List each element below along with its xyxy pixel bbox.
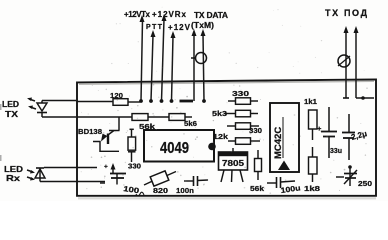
svg-text:5k6: 5k6 [184,119,197,128]
svg-text:TX ПОД: TX ПОД [325,8,368,18]
svg-text:33u: 33u [330,146,342,155]
svg-text:4049: 4049 [160,140,189,157]
svg-text:LED: LED [2,99,19,109]
svg-text:+: + [104,164,108,171]
svg-text:7805: 7805 [222,158,244,168]
svg-text:BD138: BD138 [78,127,102,136]
svg-text:+: + [317,124,322,133]
svg-text:100n: 100n [176,186,194,195]
svg-text:+12VTx: +12VTx [124,10,151,19]
svg-text:PTT: PTT [146,24,163,31]
svg-text:1k8: 1k8 [304,184,320,193]
svg-text:MC42C: MC42C [273,127,284,159]
svg-text:Rx: Rx [6,173,20,183]
svg-text:+12VRx: +12VRx [152,10,187,19]
svg-text:330: 330 [232,89,249,98]
svg-text:1k1: 1k1 [304,97,317,106]
svg-text:(TxM): (TxM) [191,20,214,30]
svg-text:330: 330 [128,162,141,171]
svg-text:12k: 12k [213,132,229,141]
svg-text:250: 250 [358,179,372,188]
svg-text:56k: 56k [250,184,265,193]
svg-text:+12V: +12V [168,23,191,32]
svg-text:820: 820 [153,186,168,195]
svg-text:5k3: 5k3 [212,109,227,118]
svg-text:TX DATA: TX DATA [194,10,228,20]
svg-text:120: 120 [110,91,123,100]
svg-text:TX: TX [5,109,18,119]
